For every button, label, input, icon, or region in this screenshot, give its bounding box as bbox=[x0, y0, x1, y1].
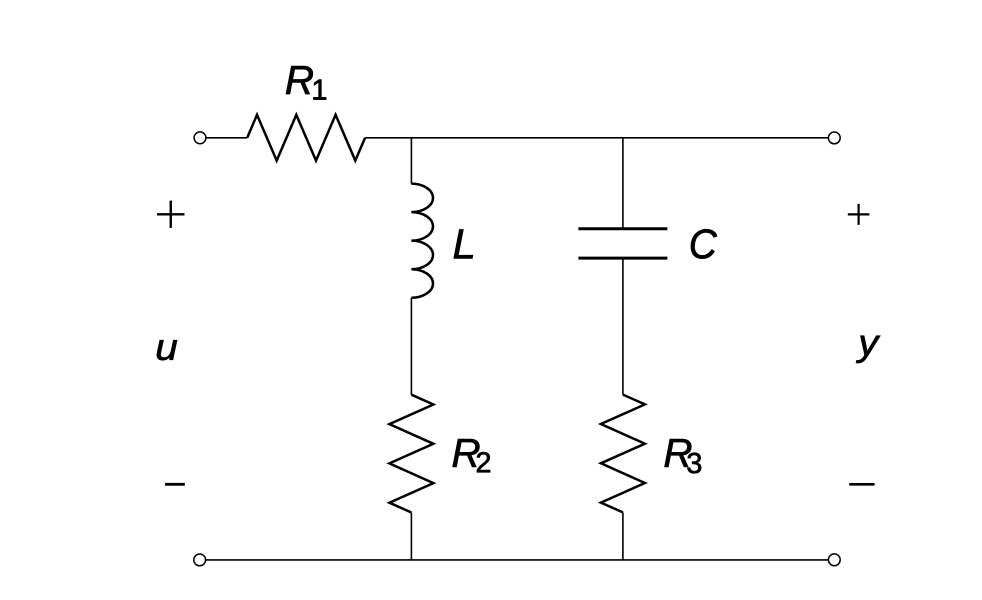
label u bbox=[157, 340, 177, 360]
node junction top L-branch bbox=[410, 138, 412, 184]
label + (input) bbox=[157, 201, 185, 228]
wire R3 to bottom rail bbox=[622, 512, 624, 560]
label R1 bbox=[286, 66, 313, 94]
label y bbox=[856, 336, 880, 363]
inductor L bbox=[411, 184, 433, 298]
label + (output) bbox=[848, 204, 870, 225]
terminal BR (output -) bbox=[828, 554, 840, 566]
wire R2 to bottom rail bbox=[410, 513, 412, 560]
wire L to R2 bbox=[410, 298, 412, 395]
label C bbox=[691, 229, 717, 258]
resistor R2 bbox=[389, 395, 433, 513]
wire bottom rail bbox=[206, 559, 828, 561]
label R3 bbox=[665, 439, 692, 467]
resistor R1 bbox=[247, 115, 365, 161]
label R2 bbox=[453, 439, 480, 467]
label - (input) bbox=[165, 483, 185, 486]
label - (output) bbox=[849, 483, 874, 486]
wire top rail bbox=[365, 137, 828, 139]
wire input to R1 bbox=[206, 137, 247, 139]
label L bbox=[454, 230, 473, 259]
wire C to R3 bbox=[622, 258, 624, 395]
resistor R3 bbox=[601, 395, 645, 513]
terminal TL (input +) bbox=[194, 132, 206, 144]
terminal BL (input -) bbox=[194, 554, 206, 566]
terminal TR (output +) bbox=[828, 132, 840, 144]
node junction top C-branch bbox=[622, 138, 624, 229]
capacitor C bbox=[578, 229, 667, 258]
